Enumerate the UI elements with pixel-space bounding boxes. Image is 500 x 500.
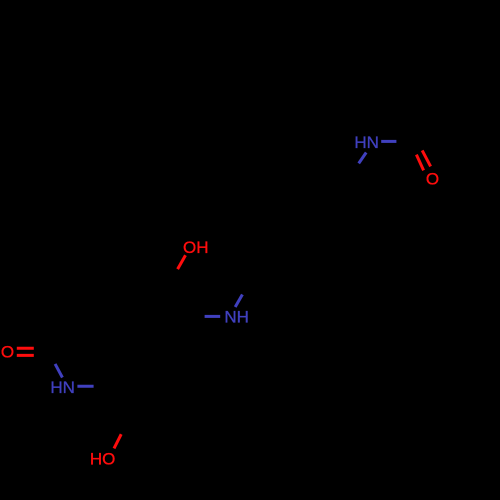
double bond C=O top-right line 2 (red half) xyxy=(422,150,430,166)
svg-text:NH: NH xyxy=(224,308,249,327)
svg-text:HO: HO xyxy=(90,449,116,468)
svg-text:O: O xyxy=(426,170,439,189)
svg-text:HN: HN xyxy=(50,378,75,397)
bond N-CH2 top-right (blue half) xyxy=(359,153,367,164)
bond C-N bottom-left amide (blue half) xyxy=(55,364,62,378)
double bond O=C bottom-left line 2 (red half) xyxy=(17,354,34,357)
svg-text:OH: OH xyxy=(183,238,209,257)
svg-text:HN: HN xyxy=(354,133,379,152)
bond N-C right bottom-left amide (blue half) xyxy=(77,385,93,388)
svg-text:O: O xyxy=(1,342,14,361)
bond N-C left middle amine (blue half) xyxy=(205,315,221,318)
double bond O=C bottom-left line 1 (red half) xyxy=(17,347,34,350)
bond N-CH2 up-right middle amine (blue half) xyxy=(235,295,242,308)
bond O-CH2 middle hydroxyl (red half) xyxy=(178,255,186,269)
double bond C=O top-right line 1 (red half) xyxy=(416,155,423,171)
bond O-CH2 bottom hydroxyl (red half) xyxy=(114,434,121,448)
bond N-C(=O) top-right (blue half) xyxy=(381,140,396,143)
